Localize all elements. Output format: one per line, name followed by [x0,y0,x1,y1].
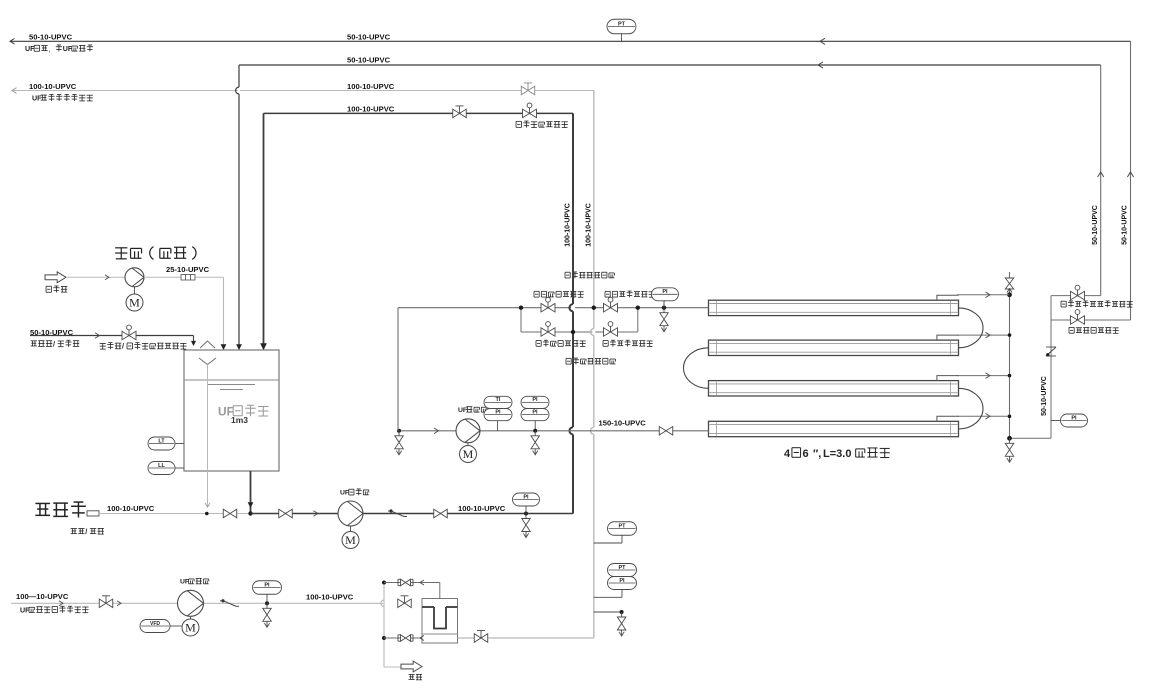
svg-text:100-10-UPVC: 100-10-UPVC [347,82,395,91]
svg-text:100-10-UPVC: 100-10-UPVC [585,203,592,247]
svg-text:LL: LL [158,463,165,469]
svg-text:50-10-UPVC: 50-10-UPVC [347,32,391,41]
svg-text:100-10-UPVC: 100-10-UPVC [29,82,77,91]
svg-text:50-10-UPVC: 50-10-UPVC [1041,376,1048,416]
svg-text:50-10-UPVC: 50-10-UPVC [29,32,73,41]
svg-text:150-10-UPVC: 150-10-UPVC [599,419,647,428]
svg-text:PI: PI [532,409,538,415]
svg-text:/: / [53,340,55,348]
svg-text:/: / [85,528,87,536]
svg-text:UF: UF [32,94,42,102]
svg-text:50-10-UPVC: 50-10-UPVC [30,328,74,337]
svg-text:PT: PT [618,565,626,571]
svg-text:M: M [129,296,140,310]
svg-text:PI: PI [532,397,538,403]
svg-text:L=3.0: L=3.0 [823,448,851,460]
svg-text:100-10-UPVC: 100-10-UPVC [458,504,506,513]
svg-text:25-10-UPVC: 25-10-UPVC [166,265,210,274]
svg-text:PI: PI [495,409,501,415]
svg-text:UF: UF [25,45,35,53]
svg-text:TI: TI [496,397,501,403]
svg-text:VFD: VFD [150,621,160,627]
svg-text:100-10-UPVC: 100-10-UPVC [306,593,354,602]
svg-text:UF: UF [340,490,349,497]
svg-text:100-10-UPVC: 100-10-UPVC [347,105,395,114]
svg-text:″,: ″, [813,448,821,460]
svg-text:M: M [463,447,474,461]
svg-text:50-10-UPVC: 50-10-UPVC [347,56,391,65]
svg-text:PT: PT [618,21,626,27]
svg-text:/: / [122,343,124,351]
svg-text:,: , [48,45,50,53]
svg-text:50-10-UPVC: 50-10-UPVC [1122,205,1129,245]
svg-text:100-10-UPVC: 100-10-UPVC [564,203,571,247]
svg-text:PI: PI [662,289,668,295]
svg-text:100—10-UPVC: 100—10-UPVC [16,592,69,601]
svg-text:PT: PT [618,523,626,529]
svg-text:M: M [345,533,356,547]
svg-text:UF: UF [458,407,467,414]
svg-text:M: M [185,621,196,635]
svg-text:100-10-UPVC: 100-10-UPVC [107,504,155,513]
svg-text:UF: UF [180,579,189,586]
svg-text:PI: PI [523,494,529,500]
svg-text:1m3: 1m3 [231,415,248,425]
svg-text:4: 4 [784,448,791,460]
svg-text:LT: LT [158,438,165,444]
svg-text:50-10-UPVC: 50-10-UPVC [1092,205,1099,245]
svg-text:PI: PI [1071,415,1077,421]
svg-text:PI: PI [264,582,270,588]
svg-text:PI: PI [619,578,625,584]
svg-text:6: 6 [802,448,808,460]
